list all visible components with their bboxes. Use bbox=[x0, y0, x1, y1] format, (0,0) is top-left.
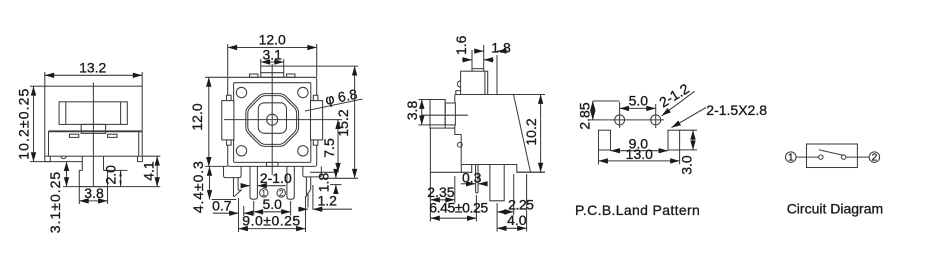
view2 dim 12.0 top line bbox=[228, 47, 317, 49]
svg-text:5.0: 5.0 bbox=[629, 93, 649, 109]
svg-text:P.C.B.Land Pattern: P.C.B.Land Pattern bbox=[575, 202, 700, 218]
pcb hole left crosshair bbox=[619, 102, 621, 128]
view2 body inner bbox=[234, 83, 311, 163]
view1 stem narrow part bbox=[82, 156, 103, 170]
view3 dim 4.0 line bbox=[497, 227, 526, 229]
view2 label 2-1.0 leader bbox=[257, 185, 285, 187]
view3 top tab ledge bbox=[456, 91, 461, 95]
view2 flange box left bbox=[224, 166, 242, 177]
view2 dim 9.0 ext right bbox=[305, 196, 307, 232]
view1 foot right bbox=[138, 156, 143, 161]
view2 dim 1.2 line bbox=[313, 208, 352, 210]
view2 dim 12.0 top ext left bbox=[227, 44, 229, 77]
view2 dim 15.2 line bbox=[354, 66, 356, 178]
view2 dim 4.4 line bbox=[209, 166, 211, 199]
view2 side terminal bar right bbox=[311, 101, 323, 140]
view2 dim 7.5 line bbox=[337, 120, 339, 173]
view2 flange box right bbox=[303, 166, 322, 177]
svg-text:0.7: 0.7 bbox=[212, 198, 232, 214]
svg-text:6.45±0.25: 6.45±0.25 bbox=[429, 199, 488, 215]
view2 octagon inner bbox=[248, 96, 297, 145]
view2 corner circle BR bbox=[298, 146, 308, 156]
view2 dim 12.0 left ext top bbox=[205, 76, 228, 78]
pcb dim 3.0 ext top bbox=[680, 129, 697, 131]
pcb dim 13.0 ext left bbox=[598, 150, 600, 164]
view2 dim 15.2 ext top bbox=[284, 65, 358, 67]
view1 stem wide part bbox=[79, 170, 107, 186]
view3 dim 1.6 ext right bbox=[483, 45, 485, 69]
view2 body outer bbox=[228, 77, 317, 166]
view1 dim 2.0 ext top bbox=[104, 169, 128, 171]
pcb dim 3.0 line bbox=[692, 130, 694, 150]
svg-text:3.8: 3.8 bbox=[404, 101, 420, 121]
view2 top tab left bbox=[250, 74, 258, 77]
view3 dim 1.6 ext left bbox=[471, 50, 473, 69]
view1 keycap inner right line bbox=[120, 102, 122, 125]
view2 dim 1.8 arrows bbox=[335, 170, 337, 179]
view2 center line vertical bbox=[271, 64, 273, 175]
view2 pin C bbox=[287, 166, 294, 199]
svg-text:1.8: 1.8 bbox=[316, 173, 332, 193]
view1 dim 3.8 line bbox=[79, 200, 107, 202]
svg-text:12.0: 12.0 bbox=[189, 103, 205, 130]
pcb label 2-1.2 leader bbox=[662, 91, 695, 116]
view3 dim 4.0 ext right bbox=[526, 174, 528, 232]
view2 dim 7.5 ext bottom bbox=[310, 171, 334, 173]
view2 dim 1.2 arrow bbox=[298, 208, 308, 210]
view2 pin A bbox=[234, 178, 242, 197]
view2 dim 12.0 top ext right bbox=[316, 44, 318, 77]
view1 dim 4.1 line bbox=[156, 156, 158, 186]
view3 body outline bbox=[455, 95, 531, 173]
view3 seating plane right bbox=[517, 171, 545, 173]
view2 pin2 circled bbox=[277, 189, 285, 197]
view2 top tab right bbox=[287, 74, 295, 77]
view2 corner circle TR bbox=[298, 87, 308, 97]
view3 dim 10.2 ext bbox=[531, 171, 546, 173]
view1 dim 2.0 line bbox=[120, 170, 122, 186]
view2 bottom tab bbox=[267, 162, 279, 166]
svg-text:10.2: 10.2 bbox=[523, 118, 539, 145]
view1 keycap inner left line bbox=[65, 102, 67, 125]
view3 dim 2.35 ext right bbox=[454, 176, 456, 203]
view1 dim 13.2 line bbox=[45, 74, 142, 76]
svg-text:5.0: 5.0 bbox=[262, 196, 282, 212]
view1 dim 13.2 extension right bbox=[141, 72, 143, 86]
view1 dim 13.2 extension left bbox=[44, 72, 46, 86]
svg-text:3.8: 3.8 bbox=[84, 185, 104, 201]
view1 dim 3.8 ext right bbox=[107, 187, 109, 204]
view1 slot right bbox=[108, 134, 117, 137]
pcb holes center line bbox=[590, 119, 664, 121]
pcb hole right crosshair bbox=[655, 104, 657, 128]
view3 dim 3.8 ext top bbox=[419, 99, 431, 101]
svg-text:1: 1 bbox=[788, 153, 794, 164]
view3 dim 0.3 leader bbox=[461, 183, 476, 185]
view3 thin pin bbox=[476, 165, 478, 193]
view3 dim 1.8 ext right bbox=[496, 55, 498, 95]
view2 dim 5.0 ext right bbox=[290, 201, 292, 216]
svg-text:7.5: 7.5 bbox=[321, 138, 337, 158]
view2 side terminal neck top-right bbox=[313, 95, 318, 100]
view3 dim 2.25 ext right bbox=[513, 174, 515, 215]
svg-text:2.0: 2.0 bbox=[102, 165, 118, 185]
view2 button circle bbox=[267, 114, 278, 125]
view1 foot left bbox=[45, 156, 51, 161]
view3 top tab inner line bbox=[484, 71, 486, 94]
view2 dim 0.7 arrow right bbox=[244, 212, 251, 214]
view1 dim 3.1 ext top bbox=[50, 161, 82, 163]
view3 keycap bbox=[430, 100, 445, 129]
svg-text:3.1±0.25: 3.1±0.25 bbox=[47, 171, 63, 233]
view2 dim 3.1 ext left bbox=[260, 59, 262, 66]
view2 dim 0.7 leader bbox=[213, 212, 239, 214]
view2 dim 12.0 left line bbox=[208, 77, 210, 166]
view3 wide leg bbox=[490, 165, 504, 201]
view3 left foot bbox=[461, 165, 471, 173]
svg-text:10.2±0.25: 10.2±0.25 bbox=[15, 88, 31, 160]
view2 dim 1.8 ext mid bbox=[322, 177, 358, 179]
svg-text:12.0: 12.0 bbox=[259, 32, 286, 48]
circuit contact left bbox=[819, 155, 823, 159]
view2 dim 5.0 ext left bbox=[253, 201, 255, 216]
view2 dim 1.2 ext right bbox=[312, 185, 314, 210]
view1 base inner right wall bbox=[138, 131, 140, 156]
view2 center line horizontal bbox=[224, 119, 342, 121]
pcb hole right bbox=[651, 115, 661, 125]
view2 dim 12.0 left ext bottom bbox=[205, 165, 228, 167]
svg-text:1.8: 1.8 bbox=[491, 40, 511, 56]
view2 dim 1.8 ext bottom bbox=[330, 184, 342, 186]
view1 dim 10.2 ext top bbox=[30, 85, 45, 87]
view2 pin1 circled bbox=[260, 189, 268, 197]
view3 top tab step bbox=[472, 69, 484, 72]
circuit wire left bbox=[796, 156, 819, 158]
view3 dim 6.45 ext right bbox=[475, 195, 477, 222]
view3 dim 3.8 ext bottom bbox=[419, 124, 446, 126]
view1 dim 10.2 line bbox=[33, 86, 35, 161]
pcb label 2-1.5x2.8 leader bbox=[672, 108, 707, 128]
view3 body left edge upper bbox=[454, 95, 456, 104]
view1 stem bottom extension bbox=[63, 186, 160, 188]
pcb dim 13.0 line bbox=[599, 160, 680, 162]
pcb dim 2.85 line bbox=[592, 101, 594, 120]
circuit wire right bbox=[846, 156, 869, 158]
view2 dim 3.1 line bbox=[261, 61, 284, 63]
view1 stem top rect bbox=[81, 124, 105, 133]
svg-text:3.0: 3.0 bbox=[679, 155, 695, 175]
svg-text:1.2: 1.2 bbox=[317, 193, 337, 209]
view1 dim 10.2 ext bottom bbox=[30, 161, 50, 163]
view3 dim 2.25 ext left bbox=[496, 203, 498, 232]
svg-text:2: 2 bbox=[872, 153, 878, 164]
view3 dim 2.35 ext left bbox=[429, 128, 431, 222]
circuit blade bbox=[819, 150, 844, 156]
view2 dim 0.7 ext right bbox=[243, 206, 245, 216]
svg-text:4.4±0.3: 4.4±0.3 bbox=[190, 160, 206, 213]
pcb dim 13.0 ext right bbox=[679, 150, 681, 164]
svg-text:0.3: 0.3 bbox=[462, 169, 482, 185]
view3 top tab bbox=[461, 71, 488, 94]
svg-text:13.0: 13.0 bbox=[626, 146, 653, 162]
view3 dim 0.3 arrow right bbox=[478, 183, 485, 185]
svg-text:2.85: 2.85 bbox=[577, 102, 593, 129]
svg-text:2.35: 2.35 bbox=[427, 184, 454, 200]
view2 side terminal neck bottom-right bbox=[313, 140, 318, 145]
view2 corner circle TL bbox=[236, 87, 246, 97]
svg-text:4.1: 4.1 bbox=[141, 161, 157, 181]
view2 corner circle BL bbox=[236, 146, 246, 156]
view3 dim 1.6 arrows bbox=[462, 59, 472, 61]
view3 dim 3.8 line bbox=[421, 100, 423, 125]
svg-text:2.25: 2.25 bbox=[508, 197, 534, 213]
circuit contact right bbox=[842, 155, 846, 159]
view3 top tab side arc bbox=[457, 81, 460, 87]
view3 dim 10.2 ext top bbox=[514, 94, 546, 96]
pcb dim 9.0 line bbox=[611, 150, 669, 152]
svg-text:3.1: 3.1 bbox=[262, 46, 282, 62]
view3 keycap stem bbox=[445, 103, 455, 125]
view2 pin D bbox=[306, 177, 310, 196]
circuit box bbox=[807, 144, 858, 168]
pcb hole left bbox=[615, 115, 625, 125]
view2 dim 9.0 ext left bbox=[238, 198, 240, 232]
view3 left edge circle bbox=[457, 142, 462, 147]
view2 phi 6.8 leader bbox=[305, 99, 363, 111]
pcb pad left bbox=[599, 130, 611, 150]
view3 seating plane left bbox=[430, 171, 461, 173]
view1 body base shelf bbox=[49, 130, 142, 132]
view1 slot left bbox=[69, 134, 78, 137]
svg-text:2-1.5X2.8: 2-1.5X2.8 bbox=[706, 102, 767, 118]
view1 keycap rect bbox=[59, 102, 127, 125]
view2 pin B bbox=[250, 166, 257, 199]
view2 button square bbox=[258, 103, 286, 134]
view2 dim 3.1 ext right bbox=[283, 59, 285, 66]
svg-text:1.6: 1.6 bbox=[453, 35, 469, 55]
view2 dim 1.2 ext left bbox=[307, 193, 309, 208]
pcb pad right bbox=[668, 130, 680, 150]
view2 top bump bbox=[261, 66, 284, 77]
view2 label 2-1.0 left arrow bbox=[241, 185, 251, 187]
view3 keycap bottom extension bbox=[445, 127, 455, 129]
view2 octagon outer bbox=[246, 94, 299, 147]
circuit terminal 2 circle bbox=[869, 152, 880, 163]
view1 boss nub bbox=[61, 156, 67, 158]
svg-text:Circuit Diagram: Circuit Diagram bbox=[787, 200, 883, 216]
pcb dim 2.85 ext top bbox=[593, 100, 620, 102]
svg-text:φ 6.8: φ 6.8 bbox=[324, 86, 359, 108]
view1 body outer bbox=[45, 86, 142, 156]
pcb dim 3.0 ext bottom bbox=[680, 149, 697, 151]
view2 side terminal neck bottom-left bbox=[227, 140, 232, 145]
svg-text:15.2: 15.2 bbox=[335, 109, 351, 136]
svg-text:13.2: 13.2 bbox=[79, 59, 106, 75]
view1 dim 4.1 ext top bbox=[143, 155, 160, 157]
svg-text:9.0±0.25: 9.0±0.25 bbox=[242, 213, 300, 229]
view1 base inner left wall bbox=[48, 131, 50, 156]
view2 side terminal bar left bbox=[222, 101, 234, 140]
view1 dim 3.1 line bbox=[66, 162, 68, 187]
view3 center line bbox=[421, 114, 468, 116]
view3 dim 2.25 line bbox=[497, 211, 514, 213]
view3 dim 6.45 line bbox=[430, 217, 476, 219]
view2 dim 9.0 line bbox=[239, 228, 306, 230]
view2 dim 4.4 ext bottom bbox=[212, 199, 237, 201]
view1 center line bbox=[92, 83, 94, 187]
svg-text:4.0: 4.0 bbox=[507, 212, 527, 228]
view3 dim 2.35 line bbox=[430, 199, 454, 201]
view3 dim 10.2 line bbox=[540, 95, 542, 173]
view2 top bump inner line bbox=[261, 72, 284, 74]
pcb dim 5.0 line bbox=[620, 107, 656, 109]
svg-text:2-1.0: 2-1.0 bbox=[260, 170, 292, 186]
view2 side terminal neck top-left bbox=[227, 95, 232, 100]
view3 dim 1.8 arrows bbox=[474, 50, 484, 52]
view3 body left edge mid bbox=[455, 125, 461, 165]
circuit terminal 1 circle bbox=[786, 152, 797, 163]
view1 dim 3.8 ext left bbox=[78, 187, 80, 204]
view2 dim 5.0 line bbox=[254, 211, 291, 213]
